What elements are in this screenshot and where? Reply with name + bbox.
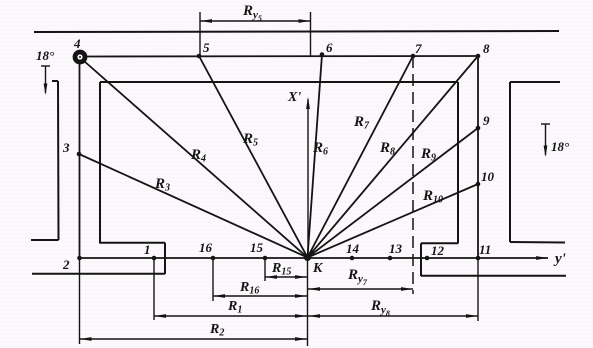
lower-left guide line xyxy=(32,273,165,275)
node 15 xyxy=(263,256,268,261)
svg-text:2: 2 xyxy=(62,257,70,272)
node 14 xyxy=(350,256,355,261)
svg-text:Ry7: Ry7 xyxy=(347,267,368,287)
dimension R16 xyxy=(213,294,307,298)
svg-text:5: 5 xyxy=(203,40,210,55)
node K xyxy=(304,254,311,261)
node 3 xyxy=(77,152,82,157)
node 5 xyxy=(197,54,202,59)
dimension R1 xyxy=(154,314,307,318)
node 6 xyxy=(320,52,325,57)
svg-text:R2: R2 xyxy=(209,322,224,339)
svg-text:3: 3 xyxy=(62,140,70,155)
ray R8 xyxy=(308,56,479,258)
axis X' xyxy=(306,97,310,258)
extension below point 16 xyxy=(212,260,214,301)
extension below point 2 xyxy=(79,258,81,344)
left 18 degree arrow xyxy=(41,66,50,95)
svg-text:9: 9 xyxy=(483,113,490,128)
node 12 xyxy=(425,256,430,261)
dimension Ry5 extension left at point 5 xyxy=(199,12,201,56)
svg-text:R5: R5 xyxy=(242,131,258,149)
dimension Ry7 xyxy=(308,287,413,291)
dimension R15 xyxy=(265,275,307,279)
dimension Ry5 line xyxy=(200,19,311,23)
extension below point 15 xyxy=(264,260,266,281)
node 16 xyxy=(211,256,216,261)
svg-text:6: 6 xyxy=(326,40,333,55)
ray R9 xyxy=(308,128,479,258)
dashed line through point 7 xyxy=(412,56,414,294)
svg-text:y': y' xyxy=(553,251,566,267)
axis y' xyxy=(79,256,548,260)
plate right notch vertical xyxy=(420,243,422,276)
plate bottom-left edge xyxy=(100,242,165,244)
svg-text:18°: 18° xyxy=(551,139,570,154)
node 7 xyxy=(411,54,416,59)
extension below K xyxy=(307,258,309,346)
ray R3 xyxy=(79,154,308,258)
plate contour right edge xyxy=(457,82,459,244)
ray R10 xyxy=(308,184,479,258)
svg-text:K: K xyxy=(312,261,324,276)
svg-text:13: 13 xyxy=(389,241,403,256)
svg-text:8: 8 xyxy=(483,41,490,56)
svg-text:R4: R4 xyxy=(190,147,206,165)
plate contour top edge xyxy=(100,81,458,83)
svg-text:7: 7 xyxy=(415,41,422,56)
right 18 degree arrow xyxy=(541,124,550,157)
svg-text:R15: R15 xyxy=(271,261,291,278)
wire vertical through points 4,3,2 xyxy=(79,62,81,258)
svg-text:R3: R3 xyxy=(154,176,170,194)
dimension Ry8 xyxy=(308,314,478,318)
node 2 xyxy=(77,256,82,261)
left guide top arm xyxy=(52,80,58,82)
node 11 xyxy=(476,256,481,261)
plate left notch vertical xyxy=(164,243,166,274)
svg-text:16: 16 xyxy=(199,240,213,255)
lower-right guide line xyxy=(421,275,566,277)
svg-text:10: 10 xyxy=(481,169,495,184)
right guide bottom arm xyxy=(510,241,565,244)
svg-text:14: 14 xyxy=(346,241,360,256)
left guide bottom arm xyxy=(31,239,59,241)
svg-text:11: 11 xyxy=(479,242,491,257)
svg-text:R8: R8 xyxy=(379,140,395,158)
extension below point 11 xyxy=(477,258,479,321)
node 9 xyxy=(476,126,481,131)
svg-text:X': X' xyxy=(287,90,301,105)
svg-text:Ry5: Ry5 xyxy=(242,3,262,23)
wire line through points 4-8 xyxy=(84,55,478,58)
svg-text:R6: R6 xyxy=(312,140,328,158)
svg-text:18°: 18° xyxy=(36,48,55,63)
svg-text:4: 4 xyxy=(73,36,81,51)
plate bottom-right edge xyxy=(421,242,458,244)
node 13 xyxy=(388,256,393,261)
dimension R2 xyxy=(80,337,308,341)
svg-text:R16: R16 xyxy=(239,280,259,297)
dimension Ry5 extension right at X axis xyxy=(310,12,312,57)
right guide vertical xyxy=(509,82,511,242)
svg-text:15: 15 xyxy=(250,240,264,255)
svg-text:R10: R10 xyxy=(422,188,443,206)
right guide top arm xyxy=(510,81,560,83)
svg-text:12: 12 xyxy=(431,243,445,258)
svg-text:R7: R7 xyxy=(353,114,370,132)
plate contour left edge xyxy=(99,82,101,244)
left guide vertical xyxy=(57,81,60,240)
svg-text:R1: R1 xyxy=(227,299,242,316)
svg-text:1: 1 xyxy=(144,242,151,257)
node 1 xyxy=(152,256,157,261)
ray R7 xyxy=(308,56,414,258)
top frame line xyxy=(34,31,559,32)
ray R4 xyxy=(84,61,308,258)
point 4 circled xyxy=(75,52,85,62)
svg-text:Ry8: Ry8 xyxy=(370,298,390,318)
extension below point 1 xyxy=(153,260,155,320)
node 10 xyxy=(476,182,481,187)
ray R6 xyxy=(308,55,323,258)
ray R5 xyxy=(199,56,308,258)
wire vertical through points 8,9,10,11 xyxy=(477,56,479,258)
svg-text:R9: R9 xyxy=(420,146,436,164)
node 8 xyxy=(476,54,481,59)
